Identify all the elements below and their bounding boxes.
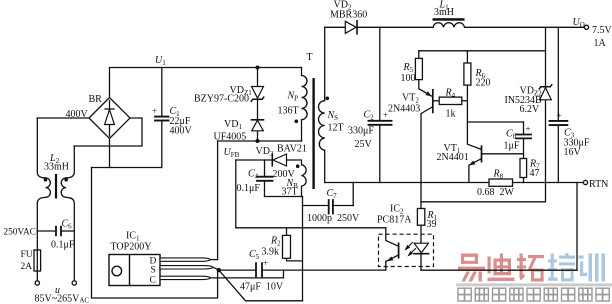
svg-text:16V: 16V (564, 147, 582, 158)
svg-text:33mH: 33mH (44, 162, 69, 173)
svg-text:BZY97-C200: BZY97-C200 (194, 94, 249, 105)
svg-text:+: + (557, 111, 562, 121)
svg-text:1k: 1k (446, 109, 456, 120)
svg-text:RTN: RTN (589, 179, 608, 190)
svg-text:25V: 25V (355, 139, 373, 150)
svg-text:2N4401: 2N4401 (437, 152, 469, 163)
svg-text:2N4403: 2N4403 (388, 104, 420, 115)
svg-text:2A: 2A (21, 262, 33, 272)
svg-text:47μF 10V: 47μF 10V (240, 282, 284, 293)
svg-text:T: T (307, 52, 313, 63)
svg-text:400V: 400V (170, 126, 193, 137)
svg-text:+: + (152, 106, 157, 116)
svg-text:3.9k: 3.9k (262, 247, 280, 258)
svg-text:37T: 37T (282, 187, 298, 198)
svg-text:PC817A: PC817A (377, 215, 412, 226)
svg-text:S: S (151, 266, 156, 276)
svg-text:7.5V: 7.5V (592, 25, 612, 36)
svg-text:100: 100 (401, 73, 416, 84)
svg-text:6.2V: 6.2V (520, 104, 541, 115)
svg-text:BR: BR (89, 94, 103, 105)
svg-text:0.68 2W: 0.68 2W (477, 187, 515, 198)
svg-text:1A: 1A (594, 38, 607, 49)
svg-text:TOP200Y: TOP200Y (111, 242, 152, 253)
svg-text:39: 39 (427, 219, 437, 230)
svg-text:12T: 12T (328, 123, 344, 134)
svg-text:BAV21: BAV21 (277, 144, 307, 155)
svg-text:MBR360: MBR360 (330, 10, 367, 21)
svg-text:1μF: 1μF (504, 141, 520, 152)
svg-text:400V: 400V (66, 109, 89, 120)
svg-text:FU: FU (21, 250, 33, 260)
svg-text:+: + (526, 124, 531, 134)
svg-text:330μF: 330μF (348, 126, 374, 137)
svg-text:C: C (150, 276, 156, 286)
svg-text:UF4005: UF4005 (214, 132, 247, 143)
svg-text:1000p 250V: 1000p 250V (307, 213, 360, 224)
svg-text:0.1μF: 0.1μF (51, 240, 75, 251)
svg-text:3mH: 3mH (434, 7, 454, 18)
svg-text:+: + (263, 258, 268, 268)
svg-text:250VAC: 250VAC (4, 228, 36, 238)
svg-text:0.1μF: 0.1μF (237, 183, 261, 194)
svg-text:136T: 136T (278, 106, 299, 117)
svg-text:47: 47 (530, 168, 540, 179)
svg-text:220: 220 (476, 78, 491, 89)
svg-text:+: + (383, 110, 388, 120)
